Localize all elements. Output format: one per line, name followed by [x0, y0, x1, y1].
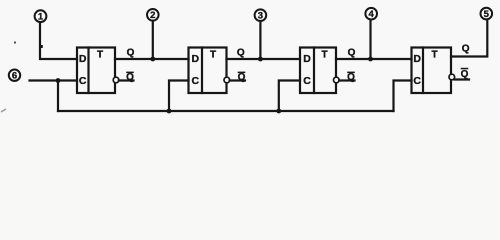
svg-text:D: D [413, 53, 421, 65]
wire Q1bar stub [119, 79, 134, 81]
wire from node 2 to Q1 net [152, 21, 154, 59]
svg-text:2: 2 [150, 10, 155, 21]
svg-text:C: C [192, 75, 200, 87]
wire Q4 output to node 5 [451, 20, 487, 57]
clock bus drop wire [57, 81, 59, 112]
junction dot clock [56, 78, 61, 83]
svg-text:D: D [79, 53, 87, 65]
junction dot node 4 [368, 57, 373, 62]
svg-text:1: 1 [38, 12, 44, 23]
svg-text:3: 3 [258, 11, 263, 22]
wire Q2 to D of U3 [227, 58, 301, 60]
svg-text:C: C [413, 75, 421, 87]
junction dot bus to U2 [167, 109, 172, 114]
svg-text:D: D [192, 53, 200, 65]
riser wire bus to C of U3 [279, 81, 300, 112]
node 3 (circled terminal) [255, 9, 267, 21]
svg-text:Q: Q [348, 48, 356, 59]
label Q1bar [126, 72, 134, 83]
svg-text:5: 5 [484, 9, 490, 20]
svg-text:T: T [321, 50, 327, 61]
label Q4bar [461, 68, 469, 80]
inverting bubble Q2bar [224, 77, 230, 83]
ink speck on wire 1 [41, 45, 43, 48]
flip-flop U4 [412, 48, 452, 94]
label Q3bar [347, 72, 355, 83]
svg-text:6: 6 [12, 71, 17, 82]
wire Q3 to D of U4 [336, 58, 412, 60]
svg-text:4: 4 [369, 9, 375, 20]
flip-flop U1 [77, 48, 115, 94]
wire from node 1 to D of U1 [40, 22, 77, 59]
wire Q2bar stub [230, 79, 245, 81]
clock wire from node 6 to C of U1 [30, 79, 78, 81]
svg-text:T: T [210, 50, 216, 61]
inverting bubble Q1bar [113, 77, 119, 83]
wire Q3bar stub [339, 79, 354, 81]
svg-text:T: T [97, 50, 103, 61]
wire from node 3 to Q2 net [259, 21, 261, 59]
inverting bubble Q4bar [449, 74, 455, 80]
node 2 (circled terminal) [147, 9, 159, 21]
svg-text:Q: Q [347, 72, 355, 83]
svg-text:C: C [79, 75, 87, 87]
node 4 (circled terminal) [365, 8, 377, 20]
label Q2bar [238, 72, 246, 83]
scan smudge bottom left [1, 109, 6, 112]
flip-flop U2 [189, 48, 227, 94]
wire Q4bar stub [455, 78, 470, 80]
clock bus wire [58, 110, 394, 112]
riser wire bus to C of U2 [169, 81, 189, 112]
svg-text:Q: Q [462, 44, 470, 55]
inverting bubble Q3bar [334, 77, 340, 83]
svg-text:Q: Q [127, 48, 135, 59]
svg-text:Q: Q [126, 72, 134, 83]
scan speck [14, 42, 16, 44]
svg-text:Q: Q [461, 69, 469, 80]
svg-text:T: T [431, 50, 437, 61]
svg-text:D: D [303, 53, 311, 65]
node 6 (circled clock terminal) [9, 70, 20, 82]
wire Q1 to D of U2 [115, 58, 189, 60]
junction dot bus to U3 [276, 109, 281, 114]
wire from node 4 to Q3 net [369, 20, 371, 59]
node 5 (circled output terminal) [481, 8, 493, 20]
node 1 (circled input terminal) [35, 10, 47, 22]
riser wire bus end to C of U4 [394, 81, 412, 112]
svg-text:Q: Q [237, 48, 245, 59]
junction dot node 3 [258, 57, 263, 62]
junction dot node 2 [150, 57, 155, 62]
svg-text:C: C [303, 75, 311, 87]
svg-text:Q: Q [238, 72, 246, 83]
flip-flop U3 [300, 48, 336, 94]
